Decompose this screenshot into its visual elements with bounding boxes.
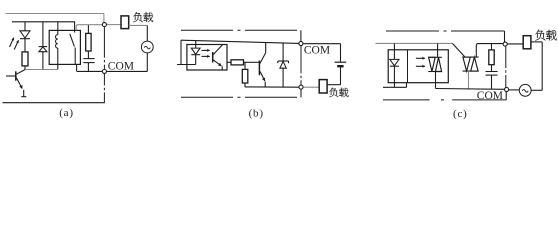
svg-text:COM: COM — [477, 90, 503, 102]
svg-text:(c): (c) — [453, 108, 468, 120]
svg-text:COM: COM — [108, 61, 134, 73]
svg-text:(b): (b) — [249, 107, 264, 119]
svg-text:COM: COM — [304, 44, 330, 56]
svg-text:(a): (a) — [59, 107, 74, 119]
